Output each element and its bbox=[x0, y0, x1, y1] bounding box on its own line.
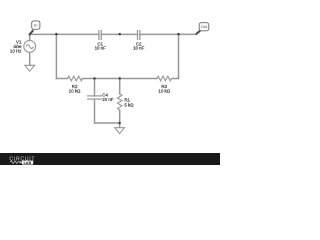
svg-text:LAB: LAB bbox=[24, 161, 32, 165]
wire top rail middle segment bbox=[101, 33, 137, 35]
wire V1 top stem bbox=[29, 34, 31, 40]
svg-text:5 kΩ: 5 kΩ bbox=[124, 103, 134, 108]
wire middle rail bbox=[56, 78, 178, 80]
ground (bottom) bbox=[115, 128, 125, 134]
wire bottom rail bbox=[95, 122, 120, 124]
junction node bottom rail bbox=[118, 122, 121, 125]
junction node middle rail at R1 bbox=[118, 77, 121, 80]
wire C4 top stem bbox=[94, 79, 96, 96]
wire R1 top stem bbox=[119, 79, 121, 95]
resistor R1 bbox=[117, 94, 134, 110]
capacitor C4 bbox=[87, 92, 114, 102]
svg-text:10 Hz: 10 Hz bbox=[10, 48, 21, 53]
wire top rail right segment bbox=[140, 33, 196, 35]
junction node top rail right bbox=[177, 33, 180, 36]
wire V1 bottom stem bbox=[29, 52, 31, 65]
svg-text:10 kΩ: 10 kΩ bbox=[158, 89, 170, 94]
svg-text:Out: Out bbox=[201, 25, 207, 29]
ground (under V1) bbox=[25, 65, 35, 71]
svg-text:10 nF: 10 nF bbox=[95, 46, 107, 51]
resistor R3 bbox=[157, 76, 172, 94]
resistor R2 bbox=[68, 76, 83, 94]
footer bar bbox=[0, 153, 220, 165]
voltage source V1 bbox=[10, 40, 36, 54]
svg-text:In: In bbox=[34, 23, 37, 28]
capacitor C1 bbox=[95, 30, 107, 51]
junction node middle rail at C4 bbox=[93, 77, 96, 80]
capacitor C2 bbox=[133, 30, 145, 51]
junction node top rail left bbox=[55, 33, 58, 36]
svg-text:20 nF: 20 nF bbox=[102, 97, 114, 102]
node Out flag bbox=[196, 23, 209, 35]
wire top rail left segment bbox=[30, 33, 99, 35]
junction node top rail centre bbox=[118, 33, 121, 36]
svg-text:10 kΩ: 10 kΩ bbox=[69, 89, 81, 94]
wire left drop bbox=[55, 34, 57, 78]
wire C4 bottom stem bbox=[94, 99, 96, 123]
node In flag bbox=[30, 21, 40, 35]
wire right riser bbox=[178, 34, 180, 78]
wire ground2 stem bbox=[119, 123, 121, 128]
svg-text:10 nF: 10 nF bbox=[133, 46, 145, 51]
wire R1 bottom stem bbox=[119, 110, 121, 123]
CircuitLab logo bbox=[9, 156, 35, 165]
junction node at V1 top bbox=[29, 33, 31, 35]
